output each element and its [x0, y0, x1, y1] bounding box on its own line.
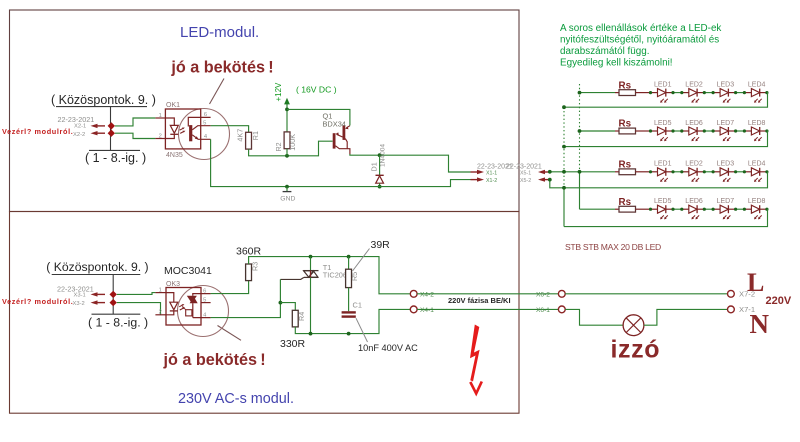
wire X4-2 to X6-2: [417, 293, 558, 295]
svg-text:izzó: izzó: [611, 336, 661, 364]
junction D1 bottom: [378, 185, 382, 189]
svg-text:LED6: LED6: [685, 120, 703, 127]
junction dot X3-2 (red): [110, 299, 117, 306]
annotation circle around OK3: [178, 286, 229, 337]
svg-text:Rs: Rs: [619, 197, 632, 208]
svg-text:R2: R2: [274, 142, 283, 151]
svg-text:C1: C1: [353, 301, 362, 310]
svg-text:X1-2: X1-2: [486, 178, 497, 184]
svg-text:330R: 330R: [280, 338, 306, 350]
svg-text:GND: GND: [280, 195, 295, 202]
svg-text:nyitófeszültségétől, nyitóáram: nyitófeszültségétől, nyitóáramától és: [560, 35, 719, 46]
svg-text:R3: R3: [251, 262, 260, 271]
svg-text:230V AC-s modul.: 230V AC-s modul.: [178, 391, 294, 407]
svg-text:( 16V DC ): ( 16V DC ): [296, 85, 337, 95]
svg-text:1: 1: [159, 113, 162, 119]
wire X3-2 to OK3 pin 2: [117, 303, 161, 315]
OK1 pin 1 stub: [155, 117, 165, 119]
junction bottom rail / C1: [347, 332, 351, 336]
svg-text:jó a bekötés !: jó a bekötés !: [170, 58, 273, 76]
connector X6-2 circle: [558, 290, 565, 297]
svg-text:LED8: LED8: [748, 198, 766, 205]
svg-text:R5: R5: [350, 272, 359, 281]
annotation pointer line (bottom): [218, 326, 242, 341]
connector X3-1 arrow: [91, 292, 98, 296]
svg-text:220V: 220V: [766, 295, 792, 307]
svg-text:A soros ellenállások értéke a: A soros ellenállások értéke a LED-ek: [560, 23, 721, 34]
svg-text:X6-1: X6-1: [536, 307, 550, 314]
connector X5-1 arrow: [538, 170, 545, 174]
wire X6-1 to lamp: [565, 309, 623, 325]
LED5 row2: [651, 130, 658, 132]
connector X1-1 arrow: [471, 171, 478, 173]
optocoupler OK3 MOC3041 body: [166, 288, 201, 326]
optocoupler OK1 4N35 body: [165, 109, 200, 149]
OK1 pin 4 (emitter) line with arrow: [192, 135, 210, 140]
svg-text:22-23-2021: 22-23-2021: [506, 163, 542, 170]
wire X6-2 to X7-2: [565, 293, 727, 295]
svg-text:Vezérl? modulról.: Vezérl? modulról.: [2, 297, 73, 306]
wire OK1 pin5 to R1: [211, 126, 249, 133]
svg-text:5: 5: [203, 297, 206, 303]
OK3 internal triac triangles: [187, 296, 197, 303]
junction top rail / triac: [309, 255, 313, 259]
wire X2-2 to OK1 pin 2: [115, 133, 155, 138]
+12V supply arrow: [286, 104, 288, 110]
junction row2: [578, 129, 582, 133]
wire return bus to row4 return: [563, 188, 565, 227]
svg-text:N: N: [750, 309, 770, 339]
OK1 LED light arrows: [180, 128, 184, 130]
connector X5-2 arrow: [538, 177, 545, 181]
LED4 row1: [744, 92, 751, 94]
svg-text:LED1: LED1: [654, 81, 672, 88]
junction top rail / R5: [347, 255, 351, 259]
OK1 pin 2 stub: [155, 138, 165, 140]
svg-text:( 1 - 8.-ig. ): ( 1 - 8.-ig. ): [85, 151, 146, 165]
svg-text:X3-1: X3-1: [74, 293, 86, 299]
svg-text:X4-2: X4-2: [420, 291, 434, 298]
OK3 pin 6 line: [193, 294, 211, 296]
svg-text:OK3: OK3: [166, 281, 180, 288]
resistor Rs row1: [615, 92, 619, 94]
junction +12V rail: [285, 108, 289, 112]
annotation circle around OK1: [179, 109, 230, 160]
resistor R5 39R: [346, 269, 352, 287]
svg-text:LED1: LED1: [654, 161, 672, 168]
svg-text:BDX34: BDX34: [323, 119, 346, 128]
resistor Rs row3: [615, 171, 619, 173]
svg-text:2: 2: [159, 133, 162, 139]
svg-text:D1: D1: [370, 162, 379, 171]
triac T1 TIC206M symbol: [303, 270, 318, 272]
OK3 pin 1 stub: [155, 292, 166, 294]
wire X4-1 to X6-1: [417, 308, 558, 310]
OK3 internal LED: [166, 293, 174, 303]
lightning bolt annotation: [470, 325, 480, 382]
svg-text:darabszámától függ.: darabszámától függ.: [560, 46, 649, 57]
OK1 phototransistor base bar: [189, 125, 192, 141]
junction dot X2-2 (red): [108, 130, 115, 137]
wire feed bus to row4: [579, 172, 581, 209]
wire row1 feed: [580, 92, 616, 94]
OK3 pin 5 stub: [201, 302, 211, 304]
svg-text:39R: 39R: [371, 239, 391, 251]
LED1 row3: [651, 171, 658, 173]
svg-text:LED3: LED3: [717, 161, 735, 168]
svg-text:6: 6: [203, 288, 206, 294]
junction row1: [578, 91, 582, 95]
feed bus (dotted) for LED rows: [579, 84, 581, 172]
svg-text:10nF 400V AC: 10nF 400V AC: [358, 343, 418, 353]
wire OK1 pin4 to GND rail and X1-2: [211, 139, 471, 186]
wire +12V rail to Q1 emitter: [287, 109, 350, 125]
LED1 row1: [651, 92, 658, 94]
svg-text:Egyedileg kell kiszámolni!: Egyedileg kell kiszámolni!: [560, 58, 673, 69]
svg-text:L: L: [747, 268, 764, 297]
wire row3 return: [562, 170, 566, 174]
connector X7-2 circle: [728, 290, 735, 297]
connector X7-1 circle: [728, 306, 735, 313]
svg-text:jó a bekötés !: jó a bekötés !: [163, 351, 266, 369]
LED8 row2: [744, 130, 751, 132]
svg-text:LED5: LED5: [654, 198, 672, 205]
triac T1 branch wire (bottom): [310, 277, 312, 333]
svg-text:LED2: LED2: [685, 81, 703, 88]
svg-text:LED4: LED4: [748, 81, 766, 88]
connector X2-1 arrow: [91, 124, 98, 128]
svg-text:STB STB MAX 20 DB LED: STB STB MAX 20 DB LED: [565, 242, 661, 252]
svg-text:MOC3041: MOC3041: [164, 265, 212, 277]
wire row4 return: [564, 209, 768, 226]
resistor Rs row4: [615, 208, 619, 210]
LED2 row1: [682, 92, 689, 94]
svg-text:LED5: LED5: [654, 120, 672, 127]
svg-text:LED7: LED7: [717, 120, 735, 127]
svg-text:LED4: LED4: [748, 161, 766, 168]
module frame: LED-modul box: [10, 10, 520, 212]
OK3 pin 4 line: [193, 317, 211, 319]
junction dot X2-1 (red): [108, 122, 115, 129]
svg-text:X1-1: X1-1: [486, 170, 497, 176]
svg-text:Vezérl? modulról.: Vezérl? modulról.: [2, 127, 73, 136]
svg-text:X6-2: X6-2: [536, 291, 550, 298]
svg-text:OK1: OK1: [166, 102, 180, 109]
LED6 row2: [682, 130, 689, 132]
svg-text:LED2: LED2: [685, 161, 703, 168]
connector X2-2 arrow: [91, 131, 98, 135]
connector X4-2 circle: [410, 290, 417, 297]
svg-text:R4: R4: [297, 312, 306, 321]
LED7 row4: [713, 208, 720, 210]
svg-text:4K7: 4K7: [236, 129, 245, 142]
svg-text:( Közöspontok. 9. ): ( Közöspontok. 9. ): [51, 93, 156, 107]
svg-text:4N35: 4N35: [166, 152, 183, 159]
wire Q1 collector to X1-1: [350, 154, 471, 172]
label ( 1 - 8.-ig. ) top: [89, 149, 140, 151]
lamp izzo symbol: [623, 315, 644, 336]
svg-text:( 1 - 8.-ig. ): ( 1 - 8.-ig. ): [88, 316, 148, 330]
wire X3-1 to OK3 pin 1: [117, 293, 155, 295]
resistor R4 330R: [292, 310, 298, 327]
OK3 zero-cross box: [186, 310, 192, 316]
LED3 row1: [713, 92, 720, 94]
wire row4 feed: [580, 208, 616, 210]
capacitor C1: [342, 311, 356, 313]
connector X1-2 arrow: [471, 179, 478, 181]
OK3 pin 2 stub: [155, 314, 166, 316]
connector X4-1 circle: [410, 306, 417, 313]
resistor R3 360R: [246, 264, 252, 281]
annotation pointer line (top): [210, 79, 225, 105]
wire R3 top to top rail and X4-2: [249, 257, 411, 294]
svg-text:220V fázisa BE/KI: 220V fázisa BE/KI: [448, 296, 511, 305]
svg-text:2: 2: [159, 310, 162, 316]
svg-text:LED6: LED6: [685, 198, 703, 205]
LED6 row4: [682, 208, 689, 210]
wire row2 feed: [580, 130, 616, 132]
svg-text:1: 1: [159, 287, 162, 293]
svg-text:X3-2: X3-2: [73, 301, 85, 307]
svg-text:100K: 100K: [288, 134, 297, 151]
LED4 row3: [744, 171, 751, 173]
diode D1 1N4004: [379, 155, 381, 175]
svg-text:LED7: LED7: [717, 198, 735, 205]
junction gate / R4: [279, 301, 283, 305]
OK3 LED light arrows: [179, 305, 183, 307]
svg-text:Rs: Rs: [619, 80, 632, 91]
svg-text:X2-2: X2-2: [73, 132, 85, 138]
svg-text:R1: R1: [251, 131, 260, 140]
wire OK3 pin6 to R3: [211, 281, 249, 294]
svg-text:LED8: LED8: [748, 120, 766, 127]
wire row1 return: [564, 93, 768, 108]
label 10nF 400V AC with pointer: [356, 318, 368, 342]
resistor R2 100K: [286, 109, 288, 131]
svg-text:X4-1: X4-1: [420, 307, 434, 314]
ground GND: [285, 185, 289, 189]
svg-text:X2-1: X2-1: [74, 124, 86, 130]
OK1 internal LED: [165, 118, 174, 125]
connector X6-1 circle: [558, 306, 565, 313]
wire X5-2 to row3 return: [550, 172, 768, 188]
svg-text:6: 6: [204, 112, 207, 118]
wire X5-1 to row3 feed: [550, 171, 615, 173]
wire R5 branch top: [348, 257, 350, 270]
OK1 pin 5 (collector) line: [192, 126, 210, 130]
return bus (dotted) for LED rows: [563, 107, 565, 188]
svg-text:X5-1: X5-1: [520, 170, 531, 176]
OK1 pin 6 (base) line: [188, 117, 210, 126]
svg-text:LED-modul.: LED-modul.: [180, 24, 259, 41]
wire OK3 pin4 to gate: [211, 279, 281, 317]
LED5 row4: [651, 208, 658, 210]
svg-text:X5-2: X5-2: [520, 178, 531, 184]
wire to R4: [280, 303, 295, 311]
junction R1/R2 bottom: [285, 154, 289, 158]
wire X2-1 to OK1 pin 1: [115, 118, 155, 126]
svg-text:5: 5: [203, 120, 206, 126]
label stem line (bottom): [112, 275, 114, 315]
connector X3-2 arrow: [91, 300, 98, 304]
junction row3: [578, 170, 582, 174]
junction dot X3-1 (red): [110, 291, 117, 298]
triac T1 branch wire (top): [310, 257, 312, 271]
transistor Q1 BDX34 symbol: [333, 133, 336, 148]
triac gate wire: [280, 277, 304, 279]
LED3 row3: [713, 171, 720, 173]
resistor R1 4K7: [246, 132, 252, 149]
label ( 1 - 8.-ig. ) bottom: [92, 313, 141, 315]
svg-text:LED3: LED3: [717, 81, 735, 88]
svg-text:360R: 360R: [236, 246, 262, 258]
label stem line (top): [110, 107, 112, 151]
wire lamp to X7-1: [644, 309, 728, 325]
wire R4 to bottom rail and X4-1: [295, 309, 410, 333]
resistor Rs row2: [615, 130, 619, 132]
wire row2 return: [564, 131, 768, 147]
module frame: 230V AC-s modul box: [10, 212, 520, 414]
svg-text:Rs: Rs: [619, 160, 632, 171]
svg-text:Rs: Rs: [619, 119, 632, 130]
wire R1 to Q1 base: [249, 141, 333, 156]
OK3 internal triac line to pin 4: [192, 303, 194, 317]
LED2 row3: [682, 171, 689, 173]
svg-text:+12V: +12V: [274, 82, 283, 102]
LED8 row4: [744, 208, 751, 210]
svg-text:1N4004: 1N4004: [379, 144, 386, 167]
svg-text:( Közöspontok. 9. ): ( Közöspontok. 9. ): [46, 260, 148, 274]
junction D1 top: [378, 153, 382, 157]
LED7 row2: [713, 130, 720, 132]
wire R5 to C1: [348, 288, 350, 312]
junction bottom rail / triac: [309, 332, 313, 336]
